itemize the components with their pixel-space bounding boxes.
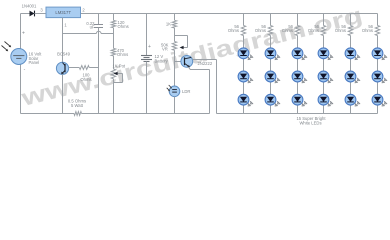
svg-text:BC549: BC549	[57, 51, 70, 56]
svg-text:+: +	[22, 31, 25, 37]
svg-text:LDR: LDR	[182, 89, 190, 94]
svg-text:Battery: Battery	[155, 58, 169, 63]
svg-text:1N4001: 1N4001	[22, 4, 37, 9]
svg-text:1K: 1K	[166, 21, 171, 26]
svg-text:Ohms: Ohms	[255, 28, 266, 33]
svg-text:Ohms: Ohms	[335, 28, 346, 33]
svg-text:LM317T: LM317T	[55, 10, 71, 15]
svg-text:White LEDs: White LEDs	[299, 120, 321, 125]
svg-text:Panel: Panel	[29, 60, 40, 65]
svg-text:Ohms: Ohms	[308, 28, 319, 33]
svg-text:Ohms: Ohms	[117, 52, 128, 57]
svg-text:+: +	[148, 44, 151, 50]
svg-text:5 Watt: 5 Watt	[71, 103, 84, 108]
svg-text:Ohms: Ohms	[80, 77, 91, 82]
svg-text:2N2222: 2N2222	[198, 61, 213, 66]
svg-text:1K Pot: 1K Pot	[113, 63, 126, 68]
svg-text:uF: uF	[90, 25, 95, 30]
svg-text:VR: VR	[162, 47, 168, 52]
svg-text:Ohms: Ohms	[228, 28, 239, 33]
svg-text:Ohms: Ohms	[282, 28, 293, 33]
svg-text:Ohms: Ohms	[118, 24, 129, 29]
svg-text:Ohms: Ohms	[362, 28, 373, 33]
